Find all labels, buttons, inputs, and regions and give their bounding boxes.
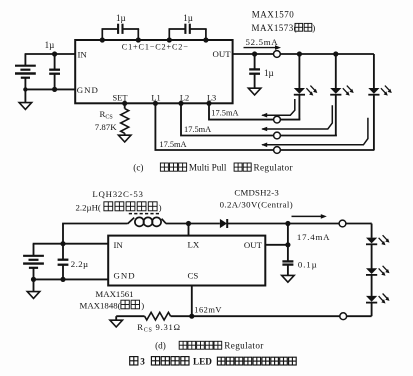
label 162mV xyxy=(194,306,222,315)
wire GND rail (U2) xyxy=(33,278,109,280)
LED D2 light arrows xyxy=(343,86,354,96)
svg-text:0.1µ: 0.1µ xyxy=(298,260,318,270)
label MAX1570 xyxy=(252,10,295,20)
caption (c) xyxy=(133,163,293,173)
pin label IN (U2) xyxy=(114,240,124,250)
connector socket OUT rail xyxy=(274,51,281,58)
LED D5 light arrows xyxy=(379,235,390,245)
wire battery B1 top to IN rail xyxy=(24,54,26,66)
junction dot battery GND xyxy=(23,87,27,91)
junction dot boost OUT node xyxy=(285,221,290,226)
pin label GND (U2) xyxy=(114,271,136,281)
wire LED D2 anode xyxy=(335,54,337,89)
wire LX pin xyxy=(188,224,190,236)
wire LED D3 anode xyxy=(373,54,375,89)
LED D6 light arrows xyxy=(379,266,390,276)
connector socket row 1 xyxy=(274,116,281,123)
label 1u (C_out) xyxy=(264,68,274,78)
wire L3 to LED connector xyxy=(209,103,300,119)
wire LED string top xyxy=(370,224,373,238)
junction dot C_in top xyxy=(52,51,57,56)
label 17.5mA row 3 xyxy=(159,140,186,149)
svg-text:GND: GND xyxy=(77,85,99,95)
label CMDSH2-3 xyxy=(234,188,279,198)
wire C_in top xyxy=(54,54,56,70)
svg-text:17.5mA: 17.5mA xyxy=(159,140,186,149)
wire L1 to LED connector xyxy=(155,103,374,150)
capacitor C3 2.2u xyxy=(58,244,69,280)
inductor L1 LQH32C-53 xyxy=(128,217,166,226)
label C1+C1-C2+C2- xyxy=(122,42,189,51)
label 1u (C2) xyxy=(183,13,193,23)
connector socket row 3 xyxy=(274,147,281,154)
LED D3 xyxy=(368,88,379,95)
diode D4 CMDSH2-3 xyxy=(220,219,227,228)
wire LED D3 cathode xyxy=(373,95,375,150)
svg-text:1µ: 1µ xyxy=(45,40,55,50)
junction dot C_out xyxy=(252,51,257,56)
wire battery B2 bottom xyxy=(33,268,35,279)
wire inductor to diode xyxy=(166,223,220,225)
current arrow 17.4mA xyxy=(292,214,327,219)
pin label IN (U1) xyxy=(78,50,88,60)
label 0.1u (C4) xyxy=(298,260,318,270)
IC U1 MAX1570/MAX1573 charge-pump LED driver xyxy=(75,40,232,103)
junction dot C3 bottom xyxy=(60,277,65,282)
arrow 52.5mA xyxy=(244,45,282,50)
wire GND rail xyxy=(25,88,76,90)
wire LED D6 cathode xyxy=(371,275,373,296)
figure caption xyxy=(130,357,297,367)
svg-text:0.2A/30V(Central): 0.2A/30V(Central) xyxy=(220,199,294,209)
connector socket row 2 xyxy=(274,132,281,139)
C1 flying capacitor 1u xyxy=(102,24,140,40)
pin label OUT (U2) xyxy=(244,240,263,250)
svg-text:52.5mA: 52.5mA xyxy=(246,37,279,47)
capacitor C_in 1u plates xyxy=(49,70,60,74)
ground under battery B2 xyxy=(27,279,40,298)
svg-text:): ) xyxy=(312,23,315,33)
LED D2 xyxy=(330,88,341,95)
label 2.2uH (CJK maker) xyxy=(76,202,162,213)
pin label L3 (U1) xyxy=(207,93,216,102)
junction dot OUT pin net xyxy=(285,242,290,247)
junction dot C3 top xyxy=(60,241,65,246)
battery B2 xyxy=(23,256,44,268)
LED D3 light arrows xyxy=(381,86,392,96)
LED D6 xyxy=(366,268,377,275)
resistor R_CS2 9.31 xyxy=(116,312,192,320)
wire OUT pin (U2) xyxy=(265,244,288,246)
svg-text:2.2µH(: 2.2µH( xyxy=(76,202,101,212)
svg-text:LED: LED xyxy=(193,357,212,367)
svg-text:OUT: OUT xyxy=(213,49,232,59)
junction dots C2 xyxy=(167,37,209,42)
svg-text:LX: LX xyxy=(188,239,200,249)
label MAX1561 xyxy=(95,289,133,299)
pin label LX (U2) xyxy=(188,239,200,249)
label MAX1848 (CJK maker) xyxy=(80,300,145,310)
IC U2 MAX1561/MAX1848 boost LED driver xyxy=(108,236,265,286)
wire LED D1 anode xyxy=(298,54,300,89)
svg-text:2.2µ: 2.2µ xyxy=(71,259,89,269)
label MAX1573 (CJK maker) xyxy=(252,23,316,33)
ground under C4 xyxy=(282,275,295,282)
current arrow 17.5mA row 2 xyxy=(261,105,332,131)
label R_CS 9.31 xyxy=(137,322,180,334)
junction dot L3 pin xyxy=(206,101,211,106)
wire IN rail xyxy=(25,53,76,55)
connector socket boost bottom xyxy=(340,313,347,320)
capacitor C4 0.1u xyxy=(282,224,293,276)
junction dot SET pin xyxy=(122,101,127,106)
svg-text:IN: IN xyxy=(114,240,124,250)
svg-text:): ) xyxy=(141,300,144,310)
wire LED D5 cathode xyxy=(371,245,373,269)
svg-text:MAX1848(: MAX1848( xyxy=(80,300,121,310)
wire boost rail to inductor xyxy=(62,224,127,244)
LED D7 light arrows xyxy=(379,294,390,304)
wire L2 to LED connector xyxy=(181,103,337,135)
svg-text:(d): (d) xyxy=(155,341,166,351)
pin label GND (U1) xyxy=(77,85,99,95)
pin label L2 (U1) xyxy=(180,93,189,102)
ground under battery B1 xyxy=(19,89,32,109)
caption (d) xyxy=(155,341,264,351)
capacitor C_out 1u xyxy=(249,54,260,88)
junction dot CS node xyxy=(189,314,194,319)
svg-text:CMDSH2-3: CMDSH2-3 xyxy=(234,188,279,198)
svg-text:Multi Pull: Multi Pull xyxy=(189,163,227,173)
LED D1 light arrows xyxy=(306,86,317,96)
wire battery B2 top xyxy=(33,244,35,256)
C2 flying capacitor 1u xyxy=(169,24,207,40)
label 1u (C_in) xyxy=(45,40,55,50)
svg-text:1µ: 1µ xyxy=(116,13,126,23)
label R_CS xyxy=(100,109,113,121)
wire battery B1 bottom xyxy=(24,78,26,90)
resistor R_CS 7.87K xyxy=(121,103,129,135)
svg-text:162mV: 162mV xyxy=(194,306,222,315)
pin label SET (U1) xyxy=(113,93,128,102)
svg-text:17.4mA: 17.4mA xyxy=(297,232,330,242)
junction dot LED D1 anode xyxy=(297,51,302,56)
junction dot LED D2 anode xyxy=(333,51,338,56)
junction dot battery B2 GND xyxy=(31,277,36,282)
svg-text:3: 3 xyxy=(140,357,145,367)
label 52.5mA xyxy=(246,37,279,47)
svg-text:17.5mA: 17.5mA xyxy=(211,109,238,118)
label 17.4mA xyxy=(297,232,330,242)
svg-text:LQH32C-53: LQH32C-53 xyxy=(92,189,143,199)
LED D1 xyxy=(294,88,305,95)
ground under C_out xyxy=(248,88,261,95)
junction dot L1 pin xyxy=(153,101,158,106)
label LQH32C-53 xyxy=(92,189,143,199)
connector socket boost top xyxy=(339,220,346,227)
current arrow 17.5mA row 3 xyxy=(261,118,368,147)
label 0.2A/30V(Central) xyxy=(220,199,294,209)
svg-text:OUT: OUT xyxy=(244,240,263,250)
label 17.5mA row 1 xyxy=(211,109,238,118)
wire LED string bottom xyxy=(192,303,372,317)
svg-text:C1+C1−C2+C2−: C1+C1−C2+C2− xyxy=(122,42,189,51)
svg-text:MAX1561: MAX1561 xyxy=(95,289,133,299)
wire LED D1 cathode xyxy=(298,95,300,120)
pin label L1 (U1) xyxy=(151,93,160,102)
label 17.5mA row 2 xyxy=(184,125,211,134)
wire OUT node to LED connector xyxy=(288,223,372,225)
pin label OUT (U1) xyxy=(213,49,232,59)
wire diode to OUT node xyxy=(227,223,288,225)
junction dot C_in bottom xyxy=(52,87,57,92)
LED D7 xyxy=(366,296,377,303)
svg-text:Regulator: Regulator xyxy=(224,341,263,351)
wire C_in bottom xyxy=(54,74,56,90)
junction dot LX node xyxy=(186,221,191,226)
svg-text:IN: IN xyxy=(78,50,88,60)
wire IN rail (U2) xyxy=(33,243,109,245)
battery B1 xyxy=(15,66,36,78)
ground left of R_CS2 xyxy=(110,316,123,327)
svg-text:): ) xyxy=(159,202,162,212)
inductor core dashes xyxy=(129,213,161,215)
ground under R_CS xyxy=(118,135,131,142)
junction dots C1 xyxy=(100,37,141,42)
svg-text:CS: CS xyxy=(188,271,199,281)
label 7.87K xyxy=(95,122,117,132)
wire CS pin xyxy=(191,286,193,317)
LED D5 xyxy=(366,238,377,245)
svg-text:1µ: 1µ xyxy=(264,68,274,78)
svg-text:GND: GND xyxy=(114,271,136,281)
svg-text:Regulator: Regulator xyxy=(254,163,293,173)
wire OUT rail xyxy=(233,53,374,55)
wire LED D2 cathode xyxy=(335,95,337,136)
current arrow 17.5mA row 1 xyxy=(261,99,295,118)
pin label CS (U2) xyxy=(188,271,199,281)
label 2.2u (C3) xyxy=(71,259,89,269)
svg-text:17.5mA: 17.5mA xyxy=(184,125,211,134)
svg-text:MAX1570: MAX1570 xyxy=(252,10,295,20)
svg-text:1µ: 1µ xyxy=(183,13,193,23)
svg-text:MAX1573(: MAX1573( xyxy=(252,23,298,33)
svg-text:(c): (c) xyxy=(133,163,143,173)
junction dot L2 pin xyxy=(178,101,183,106)
svg-text:7.87K: 7.87K xyxy=(95,122,117,132)
label 1u (C1) xyxy=(116,13,126,23)
